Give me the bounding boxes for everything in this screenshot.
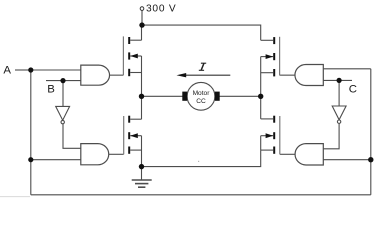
junction A lower tap — [28, 157, 33, 162]
inverter X1 — [56, 106, 70, 123]
junction motor right — [258, 94, 263, 99]
wire A vertical branch — [30, 70, 32, 195]
junction node A — [28, 67, 33, 72]
supply terminal 300 V — [140, 7, 144, 11]
ground — [132, 167, 152, 188]
wire X1 output to U2 top input — [63, 124, 81, 148]
wire supply to Q1 drain — [141, 25, 143, 40]
wire U4 bottom input from rail — [323, 159, 371, 161]
motor M1 — [182, 82, 219, 110]
svg-text:CC: CC — [196, 98, 206, 105]
wire Q2 source to node right — [260, 57, 262, 97]
transistor Q4 — [261, 116, 280, 155]
svg-text:Motor: Motor — [193, 90, 211, 97]
wire U4 output to Q4 gate — [280, 153, 295, 155]
wire U2 bottom input from node A — [31, 159, 81, 161]
junction node B — [60, 78, 65, 83]
inverter X2 — [332, 106, 346, 123]
wire C lead to U3 bottom input — [323, 79, 352, 81]
wire ghost bottom-left — [0, 196, 30, 198]
wire U2 output to Q3 gate — [109, 153, 124, 155]
wire B vertical to inverter X1 — [62, 81, 64, 107]
wire A lead — [15, 69, 31, 71]
svg-text:C: C — [349, 84, 357, 96]
wire U1 output to Q1 gate — [110, 74, 124, 76]
junction ground node — [139, 164, 144, 169]
node speck — [198, 161, 199, 162]
wire U3 top input from rail — [323, 68, 371, 70]
wire motor to node right — [220, 95, 261, 97]
and-gate U4 — [295, 144, 323, 165]
svg-text:A: A — [3, 64, 11, 76]
wire supply drop — [141, 10, 143, 25]
wire Q1 source to node left — [141, 56, 143, 96]
wire B lead — [46, 80, 81, 82]
svg-text:B: B — [47, 83, 55, 95]
wire bottom rail — [31, 194, 371, 196]
wire ground bus to Q4 source — [142, 150, 261, 167]
wire X2 output to U4 top input — [323, 124, 339, 149]
current arrow I — [177, 63, 231, 77]
junction node C — [337, 78, 342, 83]
wire Q4 body to source — [260, 136, 262, 150]
wire U3 output to Q2 gate — [280, 74, 295, 76]
svg-text:300 V: 300 V — [146, 4, 176, 15]
wire C vertical to inverter X2 — [338, 80, 340, 106]
transistor Q3 — [124, 116, 142, 155]
and-gate U1 — [81, 65, 110, 85]
and-gate U2 — [81, 144, 109, 165]
transistor Q1 — [123, 36, 141, 76]
junction supply — [139, 22, 144, 27]
wire Q3 source to ground node — [141, 136, 143, 167]
wire node left to Q3 drain — [141, 96, 143, 119]
wire right rail — [370, 69, 372, 195]
wire 300V supply rail — [142, 25, 261, 40]
and-gate U3 — [295, 65, 323, 86]
wire node right to Q4 drain — [260, 96, 262, 119]
junction motor left — [139, 94, 144, 99]
transistor Q2 — [261, 37, 280, 77]
junction rail lower tap — [368, 157, 373, 162]
wire node left to motor — [142, 95, 183, 97]
wire A to U1 top input — [31, 69, 81, 71]
